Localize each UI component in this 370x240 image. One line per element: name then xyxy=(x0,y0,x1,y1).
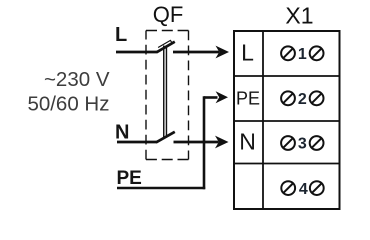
terminal block row divider 3 xyxy=(234,163,340,165)
svg-text:50/60 Hz: 50/60 Hz xyxy=(27,93,109,116)
terminal 1 screw left xyxy=(281,46,295,60)
terminal 4 screw right xyxy=(310,181,324,195)
wire L out xyxy=(173,51,219,54)
wire PE vertical xyxy=(203,96,206,189)
svg-text:X1: X1 xyxy=(285,3,313,29)
svg-text:QF: QF xyxy=(153,2,184,27)
arrow PE head xyxy=(216,91,228,103)
svg-text:~230 V: ~230 V xyxy=(44,68,110,91)
terminal block row divider 1 xyxy=(234,75,340,77)
svg-text:1: 1 xyxy=(298,46,307,63)
switch QF enclosure bottom edge xyxy=(146,159,189,161)
wire N out xyxy=(174,141,219,144)
svg-text:PE: PE xyxy=(236,89,260,109)
svg-text:2: 2 xyxy=(298,91,307,108)
switch QF enclosure right edge xyxy=(188,31,190,160)
terminal 1 screw right xyxy=(310,46,324,60)
terminal 2 screw right xyxy=(310,91,324,105)
arrow L head xyxy=(216,46,230,59)
svg-text:L: L xyxy=(241,40,254,66)
wire L in xyxy=(116,51,157,54)
svg-text:L: L xyxy=(115,24,127,46)
switch QF linkage double line xyxy=(163,46,165,138)
wire N in xyxy=(117,141,157,144)
wire PE horizontal xyxy=(117,187,205,190)
terminal block column divider xyxy=(262,31,264,209)
terminal block X1 outer frame xyxy=(234,31,340,209)
switch QF dashed enclosure xyxy=(146,30,189,32)
terminal 4 screw left xyxy=(281,181,295,195)
arrow N head xyxy=(215,136,229,149)
switch QF pole L blade xyxy=(157,42,175,53)
svg-text:4: 4 xyxy=(299,181,308,198)
switch QF pole N blade xyxy=(156,132,175,143)
wire PE to arrow xyxy=(204,96,218,99)
svg-text:3: 3 xyxy=(298,136,307,153)
terminal block row divider 2 xyxy=(234,120,340,122)
switch QF pole L blade parallel detail xyxy=(158,40,172,47)
terminal 2 screw left xyxy=(281,91,295,105)
svg-text:N: N xyxy=(239,129,256,155)
svg-text:N: N xyxy=(115,122,129,144)
svg-text:PE: PE xyxy=(117,168,142,189)
terminal 3 screw right xyxy=(310,136,324,150)
terminal 3 screw left xyxy=(281,136,295,150)
switch QF enclosure left edge xyxy=(145,31,147,160)
